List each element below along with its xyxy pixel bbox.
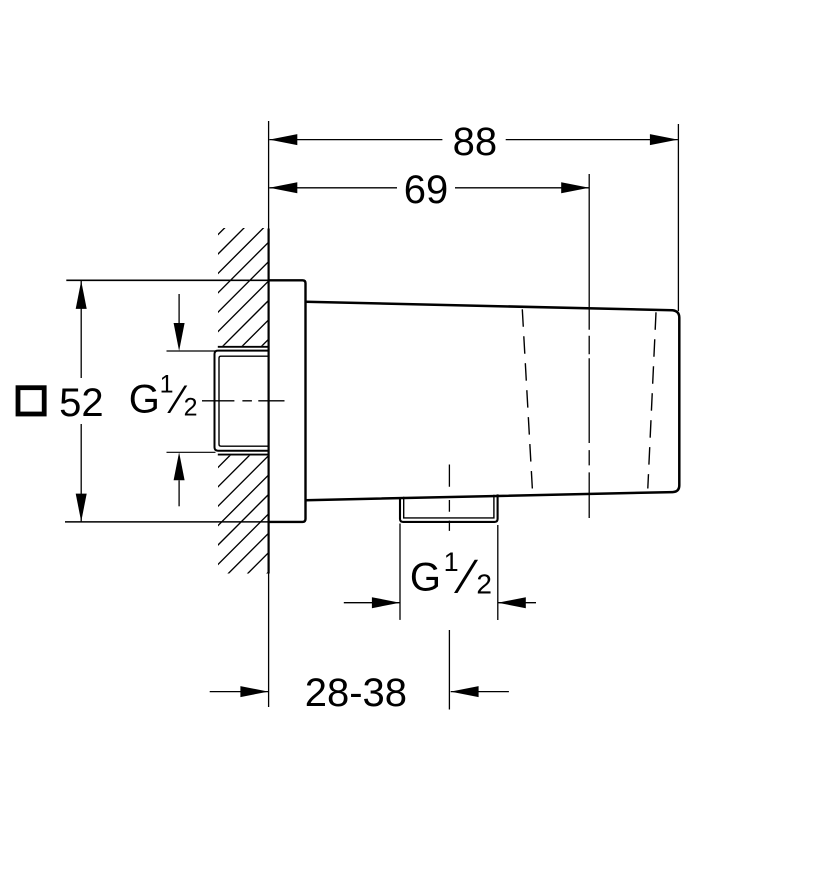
outlet stub outline with thread crest xyxy=(400,494,498,522)
arrow 69 right xyxy=(561,182,589,193)
svg-text:G: G xyxy=(410,556,441,600)
svg-text:1: 1 xyxy=(444,547,459,577)
svg-text:52: 52 xyxy=(59,381,104,425)
outlet center extension line (for 28-38) xyxy=(448,630,450,710)
arrow 69 left xyxy=(269,182,297,193)
outlet ext line left xyxy=(399,524,401,620)
svg-text:2: 2 xyxy=(476,569,492,600)
svg-text:1: 1 xyxy=(160,370,174,398)
svg-text:G: G xyxy=(129,378,160,422)
svg-text:69: 69 xyxy=(404,168,449,212)
dimension line 52 xyxy=(80,281,82,522)
arrow outlet right (points left) xyxy=(498,597,526,608)
extension line above wall (for 88/69 dims) xyxy=(268,121,270,229)
wall line (thick section edge) xyxy=(268,229,270,574)
dimension line 88 xyxy=(269,139,678,141)
label G 1/2 (inlet) xyxy=(129,370,198,422)
thread OD extension line upper xyxy=(167,350,216,352)
extension line right (for 88 dim) xyxy=(677,124,679,311)
hidden cone edge left (dashed) xyxy=(522,309,532,489)
outlet thread root line xyxy=(404,495,494,518)
body outline (tapered block) xyxy=(306,302,680,500)
svg-text:2: 2 xyxy=(184,394,198,422)
arrow 28-38 right (points left) xyxy=(451,686,479,697)
outlet G1/2 dimension line xyxy=(344,602,536,604)
inlet center line (dash-dot) xyxy=(202,400,285,402)
outlet center line (dash-dot) xyxy=(448,465,450,531)
arrow 28-38 left (points right) xyxy=(240,686,268,697)
arrow 88 right xyxy=(650,134,678,145)
arrow 52 bottom xyxy=(76,494,87,522)
square section symbol xyxy=(18,388,44,414)
center line of body (dash-dot continuation of 69 extension) xyxy=(588,336,590,518)
wall hole edge top xyxy=(218,346,269,348)
thread OD extension line lower xyxy=(167,451,216,453)
wall hole edge bottom xyxy=(218,454,269,456)
arrow 88 left xyxy=(269,134,297,145)
extension line bottom (52 dim / flange bottom) xyxy=(65,521,269,523)
extension line mid (for 69 dim) xyxy=(588,174,590,330)
hidden cone edge right (dashed) xyxy=(648,312,656,488)
svg-text:88: 88 xyxy=(453,120,498,164)
extension line below wall (for 28-38 dim) xyxy=(268,574,270,708)
thread OD dimension upper arrow (points down) xyxy=(178,294,180,323)
inlet thread root line xyxy=(219,356,269,446)
label G 1/2 (outlet) xyxy=(410,547,492,604)
wall flange plate xyxy=(269,280,306,522)
extension line top (52 dim / flange top) xyxy=(66,279,268,281)
outlet ext line right xyxy=(497,525,499,620)
dimension line 69 xyxy=(269,187,589,189)
thread OD dimension lower arrow (points up) xyxy=(178,480,180,506)
dimension line 28-38 xyxy=(210,691,509,693)
svg-text:28-38: 28-38 xyxy=(305,671,407,715)
arrow outlet left (points right) xyxy=(372,597,400,608)
arrow 52 top xyxy=(76,281,87,309)
wall hatching (section lines) xyxy=(0,170,671,620)
inlet thread crest outline xyxy=(215,351,269,451)
